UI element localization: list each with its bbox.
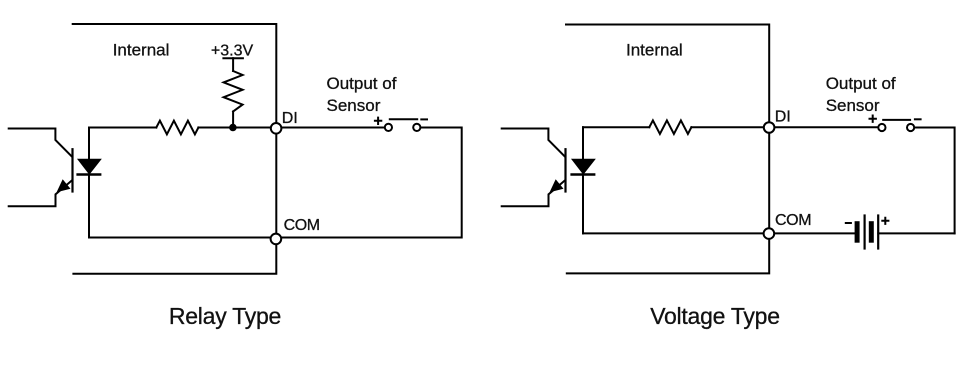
svg-text:COM: COM — [284, 217, 320, 234]
optocoupler U2 phototransistor emitter lead (right) — [502, 181, 565, 207]
wire (right: COM terminal to battery) — [774, 232, 855, 234]
wire (left: R2 to DI terminal) — [198, 127, 276, 129]
optocoupler U1 phototransistor emitter lead (left) — [9, 181, 72, 207]
svg-text:DI: DI — [282, 110, 298, 127]
battery BT1 plus label — [882, 218, 888, 224]
battery BT1 positive plate (thin tall) — [863, 216, 865, 249]
svg-text:Output of: Output of — [327, 74, 397, 93]
resistor R3 (series, right) — [649, 120, 691, 134]
svg-text:+3.3V: +3.3V — [211, 43, 254, 60]
svg-text:Internal: Internal — [113, 41, 170, 60]
wire (right: battery to right corner) — [878, 232, 954, 234]
optocoupler U2 LED triangle (right) — [573, 160, 595, 174]
battery BT1 negative plate (outer left, thick short) — [855, 224, 860, 241]
switch S2 blade (right) — [883, 119, 910, 121]
optocoupler U1 emitter arrowhead (left) — [58, 180, 70, 191]
optocoupler U2 emitter arrowhead (right) — [551, 180, 563, 191]
optocoupler U1 phototransistor collector lead (left) — [9, 129, 72, 157]
internal box border (right circuit) — [566, 25, 769, 274]
wire (right: DI terminal to switch) — [774, 126, 878, 128]
power rail +3.3V tick bar (left) — [223, 57, 243, 59]
plus polarity mark (right switch) — [870, 116, 876, 122]
junction node dot (left) — [229, 124, 237, 132]
wire (left: LED anode to series resistor) — [89, 127, 156, 129]
wire (left: LED cathode down to COM rail) — [88, 174, 90, 237]
svg-text:DI: DI — [775, 108, 791, 125]
svg-text:Internal: Internal — [626, 41, 683, 60]
svg-text:Relay Type: Relay Type — [169, 303, 281, 329]
svg-text:COM: COM — [775, 212, 811, 229]
wire (right: LED anode to series resistor) — [583, 126, 649, 128]
wire (right: LED cathode down to COM rail) — [582, 174, 584, 233]
switch S1 blade (left) — [390, 118, 417, 120]
optocoupler U2 phototransistor base bar (right) — [564, 149, 566, 191]
wire (left: DI terminal to switch) — [281, 127, 385, 129]
minus polarity mark (left switch) — [421, 118, 427, 120]
optocoupler U1 LED cathode bar (left) — [78, 173, 101, 175]
wire (right: COM rail to COM terminal) — [583, 232, 769, 234]
wire (right: R3 to DI terminal) — [691, 126, 769, 128]
resistor R1 (pull-up, left) — [224, 71, 243, 112]
wire (right: switch to right corner) — [914, 128, 954, 234]
terminal DI (left) — [271, 123, 282, 134]
minus polarity mark (right switch) — [915, 118, 921, 120]
optocoupler U1 LED triangle (left) — [79, 160, 101, 174]
plus polarity mark (left switch) — [375, 118, 381, 124]
wire (left: COM rail to COM terminal) — [89, 237, 276, 239]
internal box border (left circuit) — [73, 24, 277, 274]
svg-text:Voltage Type: Voltage Type — [650, 303, 780, 329]
battery BT1 negative plate 2 (thick short) — [869, 224, 874, 241]
wire (left: switch to right side down to COM) — [281, 128, 462, 238]
terminal COM (left) — [271, 234, 282, 245]
optocoupler U1 LED anode wire (left) — [88, 128, 90, 160]
wire (R1 to junction node) — [232, 112, 234, 128]
battery BT1 positive plate 2 (outer right, thin tall) — [877, 216, 879, 249]
svg-text:Sensor: Sensor — [826, 96, 880, 115]
optocoupler U2 LED cathode bar (right) — [572, 173, 595, 175]
svg-text:Output of: Output of — [826, 74, 896, 93]
wire (rail to pull-up R1) — [232, 58, 234, 71]
terminal COM (right) — [764, 228, 775, 239]
optocoupler U2 phototransistor collector lead (right) — [502, 129, 565, 157]
switch S1 contact circles (left) — [385, 124, 392, 131]
terminal DI (right) — [764, 122, 775, 133]
resistor R2 (series, left) — [156, 121, 198, 135]
battery BT1 minus label — [846, 222, 851, 224]
svg-text:Sensor: Sensor — [327, 96, 381, 115]
optocoupler U1 phototransistor base bar (left) — [71, 149, 73, 191]
switch S2 contact circles (right) — [878, 124, 885, 131]
optocoupler U2 LED anode wire (right) — [582, 127, 584, 160]
